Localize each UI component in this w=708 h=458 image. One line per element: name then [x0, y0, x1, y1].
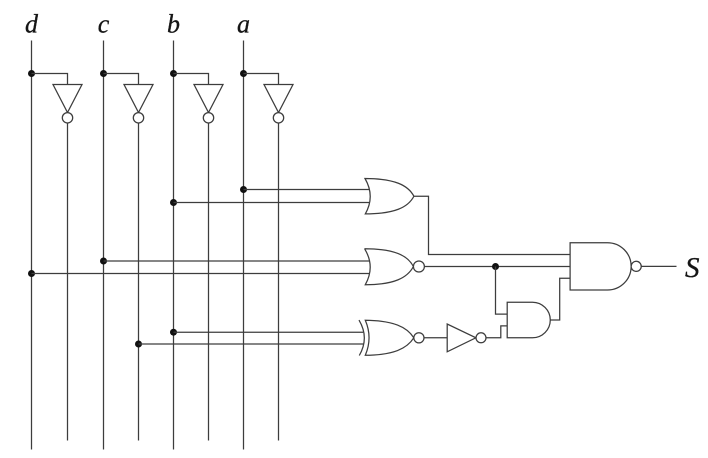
- wire input line c: [103, 41, 105, 450]
- svg-text:c: c: [98, 10, 110, 39]
- svg-text:d: d: [25, 10, 39, 39]
- wire cbar vertical: [138, 123, 140, 441]
- node tap d to NOR1: [28, 270, 35, 277]
- node tap d to inverter: [28, 70, 35, 77]
- inverter U1 (dbar): [53, 85, 82, 124]
- wire XNOR1 output to inverter U5: [424, 337, 447, 339]
- node tap b to XNOR1: [170, 329, 177, 336]
- svg-text:S: S: [685, 252, 700, 284]
- or-gate OR1: [365, 179, 414, 214]
- nor-gate NOR1: [365, 249, 425, 285]
- node tap b to inverter: [170, 70, 177, 77]
- node tap c to inverter: [100, 70, 107, 77]
- wire dbar vertical: [67, 123, 69, 441]
- wire NOR1 output to NAND1 input 2: [424, 266, 570, 268]
- wire U5 output to AND1 input 2: [486, 326, 507, 338]
- wire AND1 output to NAND1 input 3: [550, 278, 570, 320]
- xnor-gate XNOR1: [359, 320, 424, 355]
- wire d to inverter U1: [32, 74, 68, 85]
- inverter U4 (abar): [264, 85, 293, 124]
- wire a to OR1 input: [244, 189, 370, 191]
- node tap c to NOR1: [100, 258, 107, 265]
- nand-gate NAND1: [570, 243, 641, 290]
- wire input line a: [243, 41, 245, 450]
- wire NOR1 branch to AND1 input 1: [496, 267, 508, 315]
- inverter U2 (cbar): [124, 85, 153, 124]
- inverter U3 (bbar): [194, 85, 223, 124]
- wire d to NOR1 input: [32, 273, 370, 275]
- wire input line b: [173, 41, 175, 450]
- and-gate AND1: [507, 302, 550, 338]
- node junction NOR1 output branch: [492, 263, 499, 270]
- wire c to inverter U2: [104, 74, 139, 85]
- node tap a to OR1: [240, 186, 247, 193]
- wire OR1 output to NAND1 input 1: [414, 196, 570, 254]
- wire NAND1 output to S: [641, 265, 676, 267]
- wire b to OR1 input: [174, 202, 370, 204]
- inverter U5: [447, 324, 486, 352]
- node tap a to inverter: [240, 70, 247, 77]
- node tap cbar to XNOR1: [135, 341, 142, 348]
- wire b to XNOR1 input: [174, 331, 364, 333]
- node tap b to OR1: [170, 199, 177, 206]
- wire bbar vertical: [208, 123, 210, 441]
- wire c to NOR1 input: [104, 260, 370, 262]
- wire b to inverter U3: [174, 74, 209, 85]
- wire cbar to XNOR1 input: [139, 343, 364, 345]
- svg-text:a: a: [237, 10, 250, 39]
- wire a to inverter U4: [244, 74, 279, 85]
- wire input line d: [31, 41, 33, 450]
- svg-text:b: b: [167, 10, 180, 39]
- wire abar vertical: [278, 123, 280, 441]
